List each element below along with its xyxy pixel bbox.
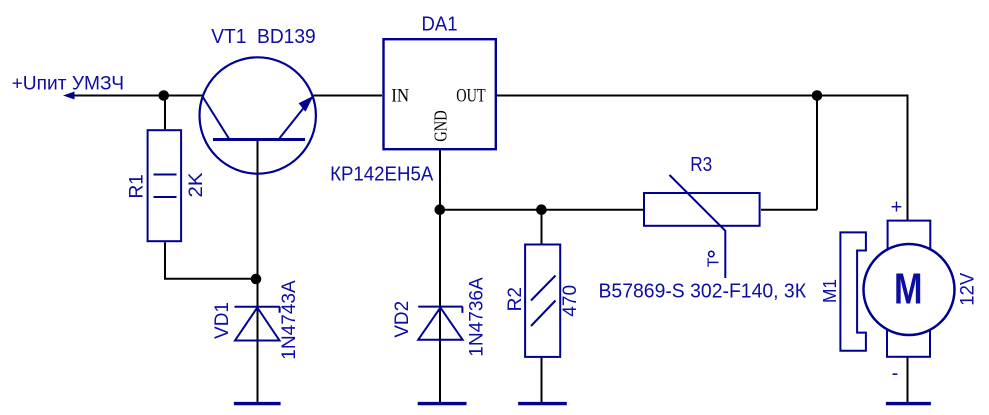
svg-text:GND: GND [431, 110, 451, 141]
svg-text:VD2: VD2 [392, 301, 413, 338]
svg-text:КР142ЕН5А: КР142ЕН5А [330, 162, 433, 185]
svg-text:R2: R2 [505, 287, 526, 311]
svg-text:-: - [892, 363, 899, 385]
svg-text:OUT: OUT [456, 86, 486, 107]
svg-text:IN: IN [391, 86, 409, 107]
svg-text:470: 470 [560, 285, 581, 317]
svg-text:R1: R1 [126, 174, 147, 198]
svg-text:+: + [891, 197, 903, 219]
svg-text:1N4743A: 1N4743A [279, 280, 300, 360]
svg-text:2K: 2K [186, 172, 207, 197]
svg-text:M: M [894, 265, 923, 314]
svg-text:12V: 12V [957, 272, 978, 305]
svg-text:B57869-S 302-F140, 3К: B57869-S 302-F140, 3К [599, 280, 807, 303]
svg-text:T: T [706, 257, 723, 267]
svg-text:VD1: VD1 [212, 302, 233, 339]
svg-text:+Uпит УМЗЧ: +Uпит УМЗЧ [12, 74, 124, 95]
svg-text:M1: M1 [820, 279, 840, 303]
svg-text:1N4736A: 1N4736A [467, 277, 488, 357]
svg-text:VT1 BD139: VT1 BD139 [211, 25, 316, 48]
svg-text:DA1: DA1 [422, 13, 458, 36]
svg-text:R3: R3 [690, 153, 712, 176]
